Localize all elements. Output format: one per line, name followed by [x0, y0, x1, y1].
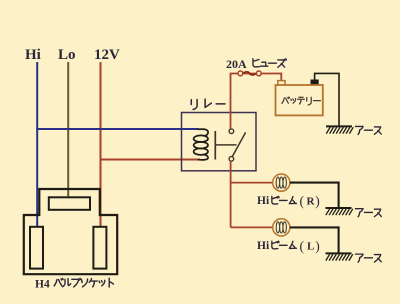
relay switch armature bar [214, 131, 216, 160]
H4 bulb socket outline [24, 189, 117, 274]
svg-text:): ) [315, 239, 320, 254]
wire battery negative to ground [315, 73, 339, 126]
socket terminal left [30, 227, 43, 269]
relay label リレー [191, 100, 197, 110]
wire feed to Hi beam L [231, 226, 273, 228]
ground label アース (battery) [355, 126, 363, 134]
ground label アース (lamp R) [355, 209, 363, 217]
socket terminal right [93, 227, 106, 269]
wire 12V branch to relay coil bottom (red horizontal) [100, 159, 200, 161]
battery box バッテリー [276, 85, 323, 115]
wire 12V vertical (red) [100, 62, 102, 227]
svg-text:(: ( [300, 239, 305, 254]
lamp Hi beam R [273, 174, 290, 191]
relay box [182, 113, 257, 171]
battery terminal + (left) [278, 81, 285, 86]
svg-text:Lo: Lo [58, 47, 76, 63]
wire relay output down + branches [230, 161, 232, 227]
wire fuse leads [231, 74, 282, 130]
wire Hi branch to relay coil top (blue horizontal) [36, 128, 199, 130]
ground label アース (lamp L) [355, 254, 363, 262]
relay coil [199, 129, 209, 136]
socket key slot (inner rect) [49, 197, 90, 210]
lamp Hi beam L [273, 219, 290, 236]
svg-text:R: R [307, 196, 316, 208]
svg-text:Hi: Hi [257, 240, 270, 252]
ground (lamp R) [326, 207, 352, 209]
svg-text:(: ( [300, 194, 305, 209]
svg-text:): ) [315, 194, 320, 209]
wire feed to Hi beam R [231, 182, 273, 184]
ground (lamp L) [326, 252, 352, 254]
wire lamp L to ground [290, 227, 339, 253]
relay switch link [215, 144, 236, 146]
relay contact top [229, 129, 234, 134]
battery terminal - (right, black) [311, 80, 318, 85]
svg-text:12V: 12V [94, 47, 120, 63]
relay contact bottom [229, 157, 234, 162]
fuse 20A (element + end caps) [243, 72, 256, 75]
ground (battery) [326, 125, 352, 127]
wire Lo vertical (olive) [67, 62, 69, 197]
relay switch arm [232, 132, 245, 156]
wire Hi vertical (blue) [36, 62, 38, 227]
wire lamp R to ground [290, 183, 339, 208]
svg-text:Hi: Hi [257, 195, 270, 207]
svg-text:20A: 20A [226, 57, 247, 71]
svg-text:H4: H4 [35, 279, 50, 291]
svg-text:L: L [307, 241, 314, 253]
svg-text:Hi: Hi [25, 47, 41, 63]
